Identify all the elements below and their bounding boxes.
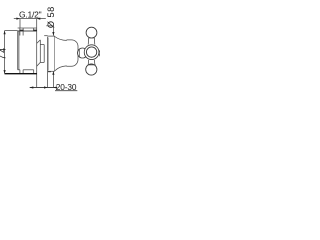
arrow left tip x36.5 xyxy=(37,18,41,20)
arrow up 74 xyxy=(4,31,6,35)
plate top edge y28 xyxy=(18,27,37,29)
arrow right tip x20 xyxy=(16,18,20,20)
plate inner edge xyxy=(48,38,50,71)
dimension 74 line top extension xyxy=(5,30,18,32)
body top edge xyxy=(18,30,37,32)
bottom cap line / 74 extension xyxy=(5,73,37,75)
outlet pipe extension xyxy=(36,70,38,88)
arrow down 58 xyxy=(52,32,54,36)
arrow right tip x47.6 xyxy=(44,86,48,88)
dimension line G.1/2 xyxy=(14,18,46,20)
collar line dome/ball xyxy=(78,49,80,57)
extension line left x20 xyxy=(19,19,21,28)
barrel front edge xyxy=(43,45,45,63)
arrow left end xyxy=(30,86,34,88)
handle right ball clipped xyxy=(99,48,109,58)
barrel top edge xyxy=(40,44,44,46)
handle bottom ball xyxy=(86,64,97,75)
plate top edge xyxy=(48,35,55,37)
arrow left tip x53.4 xyxy=(53,86,57,88)
hub outer circle xyxy=(84,45,99,60)
handle left ball xyxy=(78,48,88,58)
plate front edge xyxy=(54,36,56,71)
extension line right x36.5 xyxy=(36,19,38,28)
plate bottom tick xyxy=(48,71,51,73)
body bottom edge segments xyxy=(18,69,20,71)
body inner left edge xyxy=(18,31,20,70)
sleeve vertical xyxy=(39,40,41,63)
dim 58 vertical upper xyxy=(52,26,54,36)
svg-text:74: 74 xyxy=(0,46,8,60)
underline 20-30 xyxy=(55,90,77,92)
svg-text:Ø 58: Ø 58 xyxy=(46,6,56,28)
arrow down 74 xyxy=(4,70,6,74)
plate top tick xyxy=(44,35,47,37)
plate back edge + 20-30 left extension xyxy=(47,37,49,88)
body right edge xyxy=(36,31,38,70)
bottom pipe left xyxy=(19,70,21,74)
top pipe left xyxy=(19,28,21,31)
dim 58 vertical lower / 20-30 right extension xyxy=(52,71,54,87)
hub inner circle xyxy=(86,47,96,57)
dimension 74 vertical line xyxy=(4,31,6,74)
top pipe right xyxy=(33,28,35,31)
svg-text:G.1/2": G.1/2" xyxy=(19,9,42,19)
escutcheon bell and dome xyxy=(55,37,78,71)
flare diagonal bottom xyxy=(37,62,41,66)
inner stub lines xyxy=(19,31,21,36)
bottom neck xyxy=(88,60,95,65)
barrel bottom edge xyxy=(40,61,44,63)
arrow up 58 xyxy=(52,71,54,75)
dim 58 top tick xyxy=(46,25,53,27)
flare diagonal top xyxy=(37,40,41,44)
top neck xyxy=(88,38,95,45)
body left edge xyxy=(17,31,19,70)
handle top ball xyxy=(86,27,97,38)
bottom ball chord xyxy=(88,64,96,66)
plate bottom edge xyxy=(48,70,55,72)
dim 20-30 line xyxy=(30,87,55,89)
bottom pipe right xyxy=(33,70,35,74)
top ball chord xyxy=(88,37,94,39)
